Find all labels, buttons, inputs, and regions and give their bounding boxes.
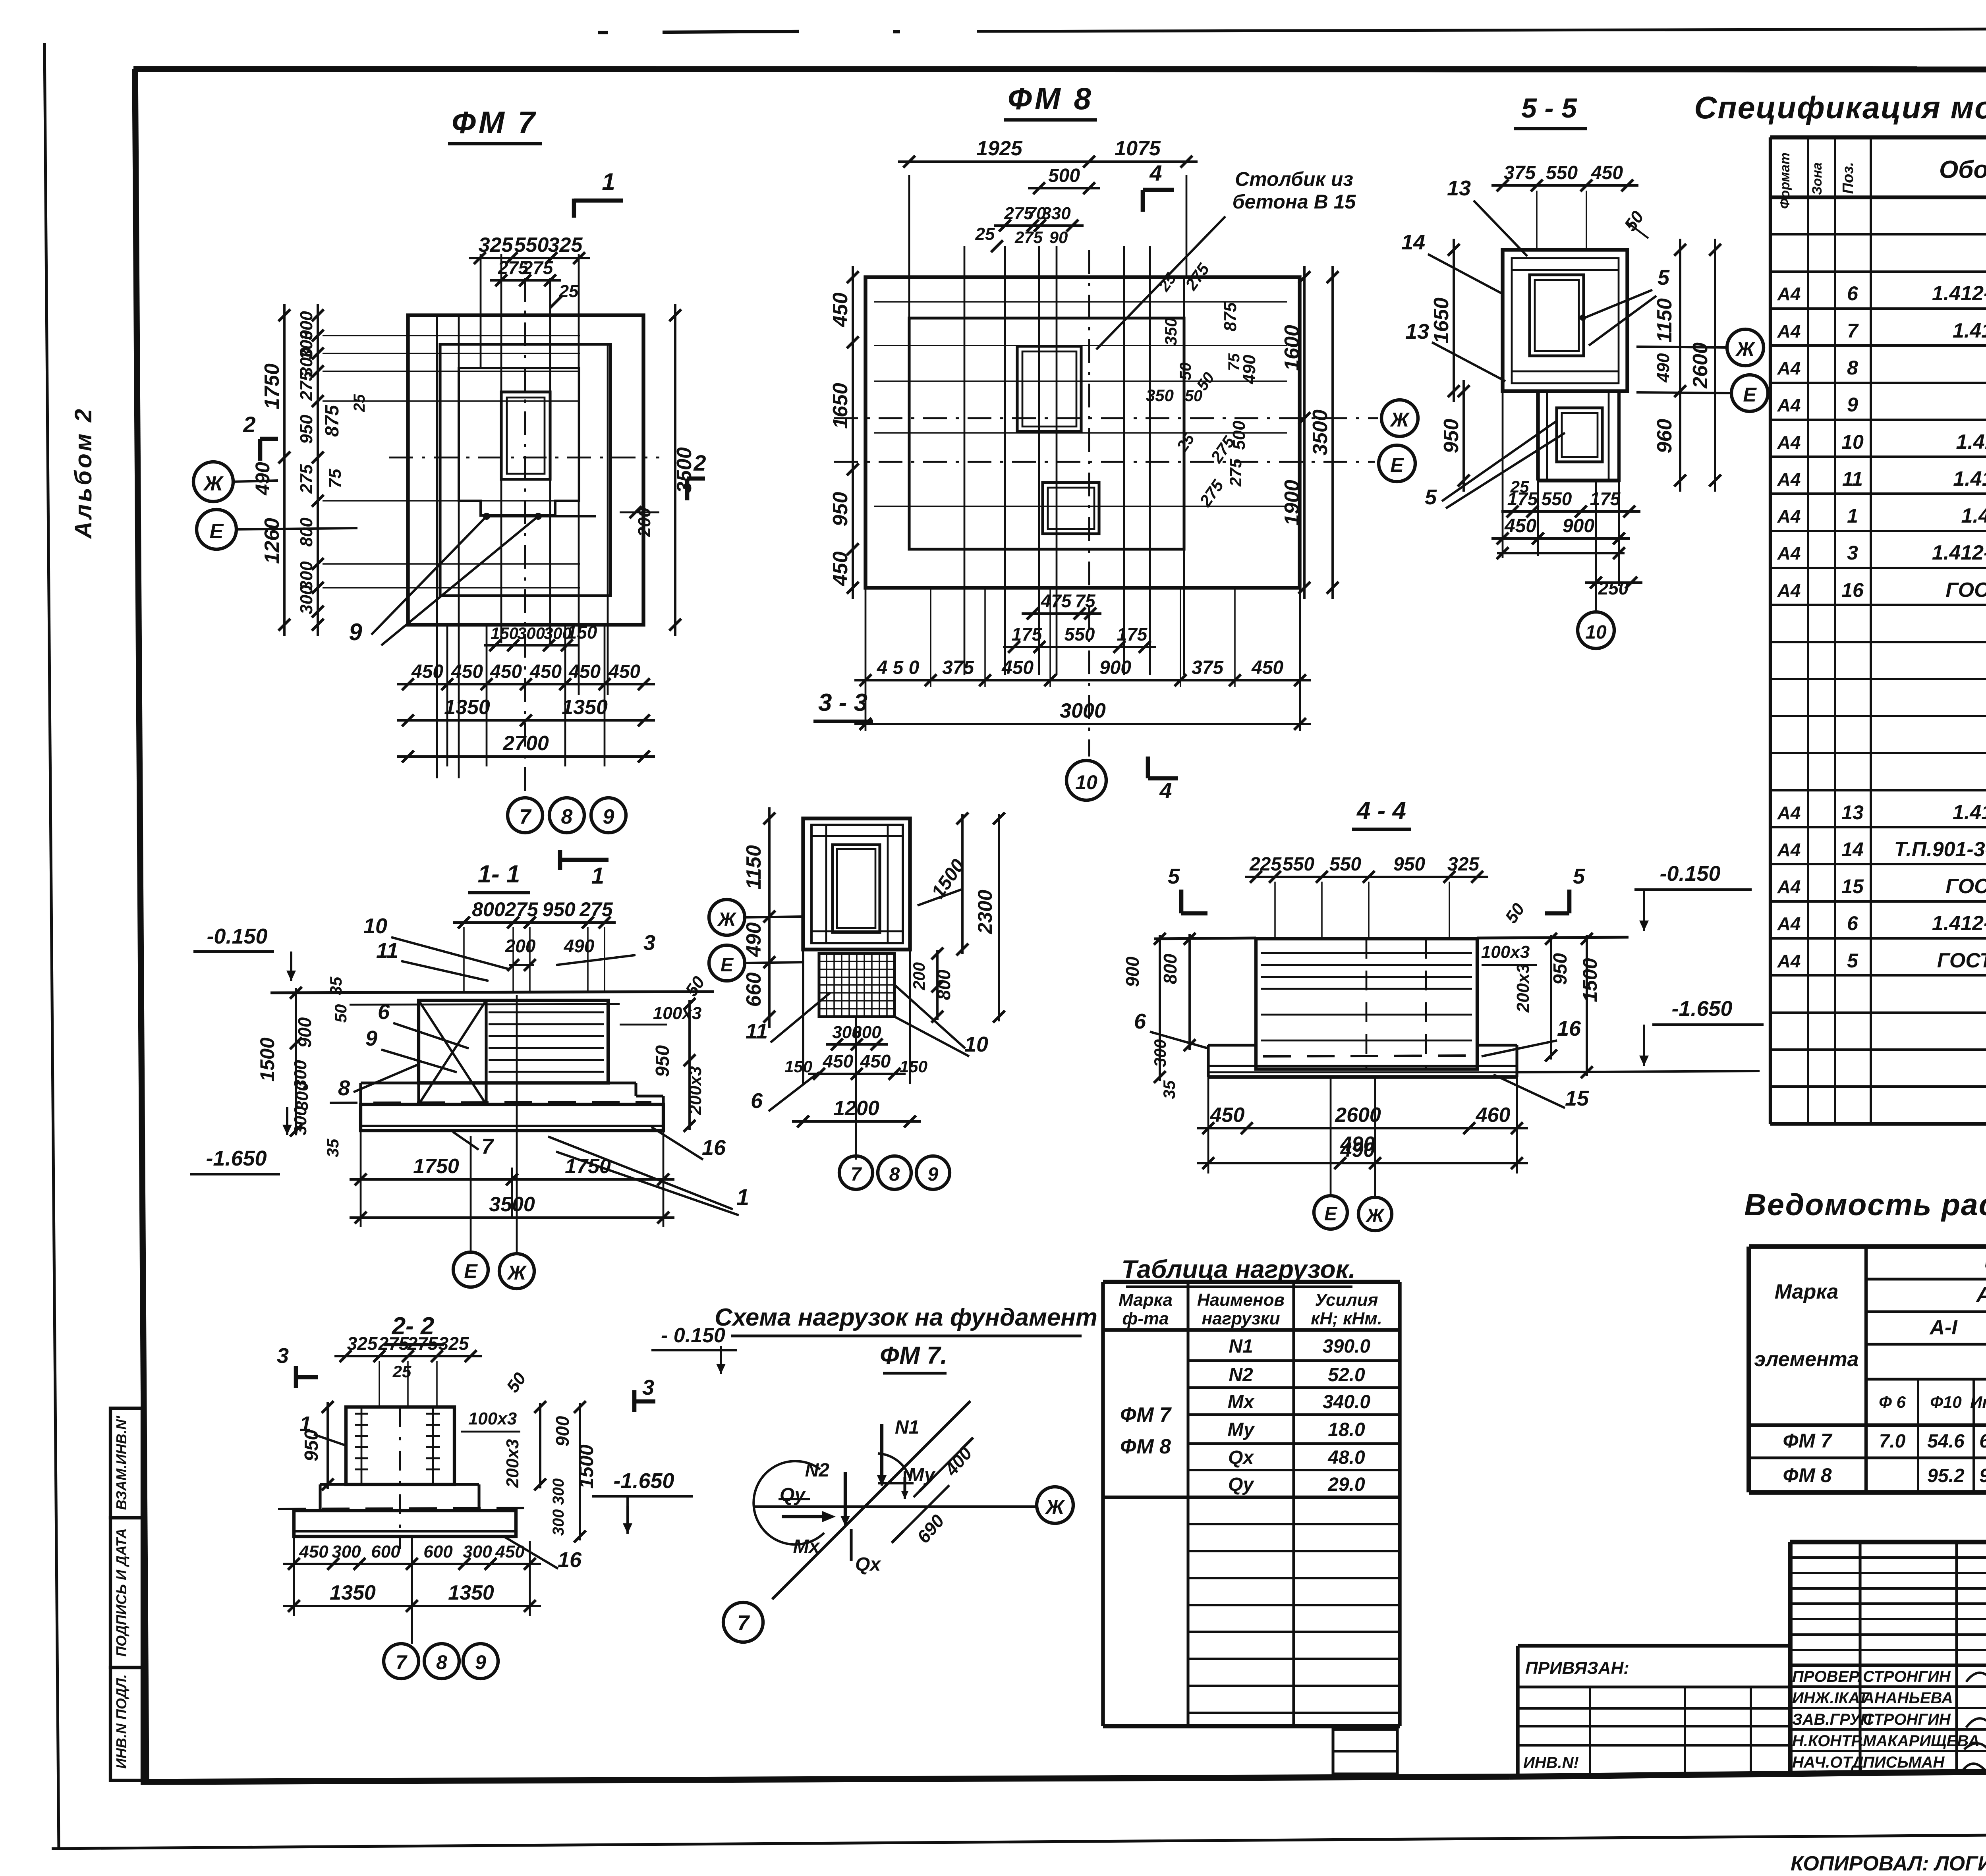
- svg-text:2600: 2600: [1689, 342, 1712, 389]
- svg-text:Т.П.901-3-268.89 КЖ.И С1: Т.П.901-3-268.89 КЖ.И С1: [1894, 838, 1986, 861]
- svg-text:4: 4: [1149, 160, 1162, 185]
- svg-text:10: 10: [964, 1033, 988, 1056]
- FM8 extension verticals: [964, 246, 966, 675]
- svg-text:А4: А4: [1777, 840, 1801, 860]
- sheet edge bottom: [52, 1831, 1986, 1849]
- svg-text:ФМ 7: ФМ 7: [1783, 1430, 1833, 1452]
- svg-text:325: 325: [479, 234, 514, 257]
- svg-text:13: 13: [1447, 176, 1471, 200]
- svg-text:А4: А4: [1777, 358, 1801, 378]
- svg-text:3: 3: [1847, 542, 1858, 564]
- svg-text:3: 3: [277, 1344, 289, 1368]
- svg-text:100х3: 100х3: [1481, 942, 1530, 962]
- svg-text:N1: N1: [895, 1417, 919, 1438]
- svg-text:16: 16: [558, 1548, 582, 1572]
- svg-text:460: 460: [1476, 1104, 1511, 1127]
- svg-text:Схема нагрузок на фундамент: Схема нагрузок на фундамент: [715, 1304, 1097, 1331]
- svg-text:Е: Е: [1390, 454, 1404, 476]
- svg-text:29.0: 29.0: [1327, 1474, 1365, 1495]
- svg-text:А4: А4: [1777, 876, 1801, 897]
- S33 axis circles 789: [839, 1156, 873, 1189]
- svg-text:Зона: Зона: [1810, 162, 1825, 195]
- svg-text:1600: 1600: [1281, 325, 1304, 371]
- svg-text:1650: 1650: [829, 383, 852, 429]
- svg-text:950: 950: [542, 898, 576, 921]
- svg-text:475: 475: [1041, 591, 1072, 611]
- svg-text:N2: N2: [1229, 1365, 1253, 1386]
- svg-text:1.412.1- 4.050: 1.412.1- 4.050: [1953, 467, 1986, 490]
- svg-text:Ж: Ж: [203, 472, 224, 495]
- svg-text:490: 490: [251, 462, 274, 496]
- svg-text:150: 150: [784, 1057, 812, 1076]
- svg-text:550: 550: [1542, 488, 1572, 509]
- load scheme N2 arrow: [844, 1472, 847, 1521]
- svg-text:ПРОВЕР.: ПРОВЕР.: [1792, 1668, 1862, 1685]
- left stamp box inv: [110, 1668, 142, 1780]
- svg-text:Столбик из: Столбик из: [1235, 168, 1353, 190]
- svg-text:800: 800: [1160, 953, 1180, 984]
- svg-text:450: 450: [1251, 657, 1283, 678]
- sheet edge left: [44, 43, 59, 1849]
- S33 lower outline: [802, 950, 804, 1084]
- svg-text:Таблица нагрузок.: Таблица нагрузок.: [1121, 1255, 1356, 1283]
- svg-text:450: 450: [608, 661, 640, 682]
- svg-text:9: 9: [1847, 394, 1858, 416]
- svg-text:СТРОНГИН: СТРОНГИН: [1863, 1711, 1951, 1728]
- svg-text:200х3: 200х3: [1513, 964, 1533, 1013]
- S11 ground line: [270, 992, 714, 993]
- load scheme 400 dim: [914, 1440, 971, 1497]
- svg-text:13: 13: [1405, 320, 1429, 344]
- svg-text:1900: 1900: [1281, 480, 1304, 526]
- drawing frame: [133, 69, 1986, 69]
- FM8 outline: [865, 277, 1300, 588]
- FM8 bottom extension verticals: [865, 588, 867, 731]
- svg-text:950: 950: [829, 492, 852, 527]
- FM8 axis circle 10: [1066, 760, 1106, 800]
- S33 axis circles: [709, 899, 745, 935]
- svg-text:1.412-1/77-8.3-100: 1.412-1/77-8.3-100: [1932, 912, 1986, 935]
- FM8 upper pocket: [1017, 346, 1081, 431]
- svg-text:-1.650: -1.650: [206, 1146, 267, 1170]
- svg-text:Му: Му: [908, 1465, 936, 1486]
- svg-text:ф-та: ф-та: [1122, 1309, 1169, 1328]
- svg-text:ПИСЬМАН: ПИСЬМАН: [1863, 1754, 1945, 1771]
- svg-text:1075: 1075: [1115, 137, 1161, 160]
- S55 lower pocket: [1557, 408, 1602, 462]
- S55 top dims: [1491, 184, 1638, 187]
- svg-text:Qу: Qу: [1228, 1474, 1254, 1495]
- load scheme Qy arrow: [782, 1515, 830, 1518]
- svg-text:ИНВ.N ПОДЛ.: ИНВ.N ПОДЛ.: [113, 1674, 129, 1769]
- FM7 column pocket: [501, 392, 550, 479]
- svg-text:150: 150: [567, 622, 597, 643]
- svg-text:300: 300: [852, 1023, 881, 1042]
- FM8 lower pocket: [1043, 483, 1099, 534]
- svg-text:325: 325: [439, 1333, 469, 1354]
- S22 bottom dims: [283, 1563, 541, 1565]
- svg-text:3: 3: [642, 1376, 654, 1399]
- load scheme circle 7: [723, 1602, 763, 1642]
- svg-text:1150: 1150: [742, 845, 765, 890]
- svg-text:450: 450: [829, 552, 852, 587]
- S22 body: [346, 1407, 454, 1484]
- svg-text:175: 175: [1117, 624, 1148, 645]
- S22 section flags 3: [294, 1366, 298, 1388]
- svg-text:550: 550: [514, 234, 549, 257]
- load table grid: [1103, 1280, 1400, 1284]
- svg-text:300: 300: [517, 624, 545, 643]
- svg-text:325: 325: [347, 1333, 378, 1354]
- svg-text:95.2: 95.2: [1979, 1465, 1986, 1486]
- svg-text:5 - 5: 5 - 5: [1521, 93, 1577, 124]
- FM7 axis circle Zh: [193, 462, 233, 502]
- svg-text:450: 450: [1591, 162, 1623, 183]
- svg-text:ФМ 7: ФМ 7: [452, 105, 537, 140]
- FM7 horizontal extension lines: [323, 335, 580, 336]
- svg-text:900: 900: [294, 1017, 315, 1048]
- svg-text:Ж: Ж: [1735, 338, 1756, 360]
- svg-text:10: 10: [363, 914, 387, 938]
- svg-text:100х3: 100х3: [468, 1409, 517, 1428]
- title block signatures: [1966, 1672, 1986, 1682]
- svg-text:4 5 0: 4 5 0: [877, 657, 920, 678]
- svg-text:8: 8: [889, 1164, 900, 1185]
- svg-text:Наименов: Наименов: [1197, 1290, 1285, 1310]
- svg-text:1: 1: [602, 168, 615, 195]
- svg-text:кН; кНм.: кН; кНм.: [1311, 1309, 1382, 1328]
- svg-text:175: 175: [1012, 624, 1043, 645]
- svg-text:2: 2: [243, 412, 255, 437]
- svg-text:Е: Е: [1324, 1204, 1338, 1225]
- svg-text:340.0: 340.0: [1323, 1392, 1370, 1413]
- svg-text:275: 275: [504, 898, 539, 921]
- svg-text:375: 375: [1504, 162, 1536, 183]
- svg-text:8: 8: [338, 1076, 350, 1100]
- FM8 axis circle E: [1379, 445, 1415, 482]
- svg-text:ВЗАМ.ИНВ.N': ВЗАМ.ИНВ.N': [113, 1415, 129, 1510]
- FM8 section flag 4 top: [1141, 190, 1145, 212]
- svg-text:50: 50: [331, 1004, 350, 1023]
- FM7 axis circles 789: [508, 798, 543, 833]
- S33 left dims: [768, 807, 771, 1028]
- svg-text:1500: 1500: [1579, 958, 1601, 1002]
- load scheme diagonal axis: [772, 1401, 970, 1599]
- FM7 bottom small dims: [484, 644, 578, 647]
- S33 hatch grid: [819, 953, 894, 1017]
- svg-text:550: 550: [1283, 854, 1314, 875]
- svg-text:10: 10: [1841, 431, 1864, 453]
- svg-text:1- 1: 1- 1: [478, 861, 520, 888]
- S44 axis circles: [1314, 1196, 1347, 1229]
- title block left grid: [1858, 1542, 1861, 1773]
- svg-text:175: 175: [1590, 488, 1621, 509]
- svg-text:275: 275: [378, 1333, 410, 1354]
- FM7 inner rect: [440, 344, 610, 596]
- svg-text:Qх: Qх: [855, 1554, 881, 1575]
- svg-text:2600: 2600: [1335, 1104, 1381, 1127]
- svg-text:950: 950: [1440, 419, 1463, 454]
- svg-text:2700: 2700: [502, 732, 549, 755]
- load scheme My arrow: [878, 1482, 914, 1484]
- svg-text:ГОСТ 23279-85: ГОСТ 23279-85: [1945, 579, 1986, 602]
- svg-text:Марка: Марка: [1775, 1280, 1839, 1303]
- svg-text:ИНЖ.IКАТ: ИНЖ.IКАТ: [1792, 1689, 1869, 1707]
- svg-text:3500: 3500: [1309, 409, 1332, 455]
- svg-text:4 - 4: 4 - 4: [1356, 797, 1406, 824]
- svg-text:КОПИРОВАЛ: ЛОГИНОВА: КОПИРОВАЛ: ЛОГИНОВА: [1791, 1852, 1986, 1875]
- S11 dashed level: [330, 1102, 651, 1103]
- S11 x-brace: [419, 1000, 486, 1104]
- svg-text:450: 450: [823, 1051, 854, 1071]
- svg-text:550: 550: [1064, 624, 1095, 645]
- svg-text:490: 490: [564, 936, 595, 956]
- svg-text:А4: А4: [1777, 506, 1801, 527]
- svg-text:13: 13: [1841, 801, 1864, 824]
- svg-text:1260: 1260: [261, 518, 284, 564]
- svg-text:250: 250: [1598, 578, 1629, 598]
- svg-text:450: 450: [299, 1542, 328, 1561]
- svg-text:18.0: 18.0: [1328, 1419, 1365, 1440]
- svg-text:МАКАРИЩЕВА: МАКАРИЩЕВА: [1863, 1732, 1980, 1750]
- svg-text:5: 5: [1573, 865, 1585, 888]
- svg-text:7: 7: [481, 1135, 495, 1158]
- sheet top edge line: [977, 28, 1986, 31]
- svg-text:375: 375: [1192, 657, 1224, 678]
- svg-text:Qх: Qх: [1228, 1447, 1254, 1468]
- svg-text:11: 11: [746, 1019, 768, 1043]
- S11 footing: [361, 1081, 419, 1084]
- svg-text:54.6: 54.6: [1927, 1431, 1965, 1452]
- svg-text:7: 7: [520, 805, 532, 828]
- svg-text:1.410 - 3.1 -03: 1.410 - 3.1 -03: [1953, 801, 1986, 824]
- svg-text:7.0: 7.0: [1879, 1431, 1906, 1452]
- svg-text:300: 300: [463, 1542, 492, 1561]
- svg-text:6: 6: [751, 1089, 763, 1113]
- svg-text:950: 950: [1393, 854, 1425, 875]
- svg-text:1: 1: [736, 1185, 749, 1210]
- svg-text:3 - 3: 3 - 3: [818, 689, 867, 716]
- S22 extension verticals: [379, 1361, 380, 1407]
- svg-text:8: 8: [561, 805, 573, 828]
- svg-text:25: 25: [975, 224, 995, 244]
- svg-text:600: 600: [423, 1542, 453, 1561]
- spec table grid: [1769, 137, 1772, 1124]
- svg-text:95.2: 95.2: [1927, 1465, 1965, 1486]
- svg-text:АНАНЬЕВА: АНАНЬЕВА: [1862, 1689, 1953, 1707]
- svg-text:900: 900: [552, 1416, 573, 1446]
- S33 bottom dims: [826, 1043, 888, 1046]
- FM7 bottom dim 2700: [397, 755, 655, 758]
- svg-text:1500: 1500: [575, 1444, 597, 1488]
- svg-text:N1: N1: [1229, 1336, 1253, 1357]
- FM8 extension horizontals: [874, 301, 1287, 303]
- svg-text:А4: А4: [1777, 543, 1801, 564]
- S55 dim 250: [1585, 581, 1642, 584]
- S11 left dims: [295, 988, 297, 1135]
- S55 circle 10: [1578, 612, 1614, 648]
- FM8 right dims: [1303, 266, 1306, 599]
- svg-text:450: 450: [490, 661, 522, 682]
- svg-text:450: 450: [568, 661, 601, 682]
- svg-text:7: 7: [396, 1651, 408, 1673]
- svg-text:5: 5: [1658, 266, 1670, 290]
- S22 slab: [294, 1511, 516, 1536]
- svg-text:11: 11: [376, 939, 398, 963]
- FM7 section flag 2 right: [685, 479, 690, 500]
- svg-text:350: 350: [1161, 318, 1180, 345]
- svg-text:Ведомость расхода стали на эле: Ведомость расхода стали на элемент, кг.: [1744, 1188, 1986, 1222]
- svg-text:25: 25: [351, 394, 368, 412]
- load scheme moment arcs: [753, 1461, 824, 1544]
- svg-text:450: 450: [411, 661, 443, 682]
- svg-text:275: 275: [579, 898, 613, 921]
- S22 axis circles 789: [384, 1644, 419, 1679]
- svg-text:35: 35: [326, 977, 345, 995]
- svg-text:6: 6: [1134, 1009, 1146, 1033]
- privyazan table: [1518, 1644, 1790, 1647]
- S22 top dims: [334, 1355, 482, 1357]
- svg-text:1.410-3.1-02: 1.410-3.1-02: [1961, 504, 1986, 527]
- svg-text:50: 50: [1185, 387, 1203, 405]
- svg-text:ФМ 7.: ФМ 7.: [880, 1342, 947, 1369]
- svg-text:450: 450: [451, 661, 483, 682]
- svg-text:ФМ 8: ФМ 8: [1008, 81, 1093, 116]
- svg-text:1750: 1750: [565, 1155, 611, 1178]
- svg-text:150: 150: [900, 1057, 927, 1076]
- S44 footing: [1208, 1044, 1256, 1046]
- S11 slab: [361, 1104, 663, 1131]
- svg-text:175: 175: [1507, 488, 1538, 509]
- svg-text:61.6: 61.6: [1979, 1431, 1986, 1452]
- S55 upper outline: [1503, 250, 1627, 391]
- svg-text:8: 8: [436, 1651, 447, 1673]
- svg-text:15: 15: [1565, 1087, 1589, 1110]
- svg-text:ИНВ.N!: ИНВ.N!: [1523, 1754, 1579, 1772]
- svg-text:А4: А4: [1777, 580, 1801, 601]
- svg-text:1350: 1350: [448, 1581, 494, 1604]
- S55 right dims: [1679, 239, 1681, 492]
- svg-text:Ж: Ж: [1365, 1205, 1385, 1226]
- svg-text:А4: А4: [1777, 284, 1801, 304]
- svg-text:Поз.: Поз.: [1840, 162, 1857, 194]
- FM8 section flag 4 bottom: [1146, 757, 1150, 778]
- svg-text:875: 875: [322, 405, 343, 437]
- S55 lower outline: [1538, 391, 1619, 481]
- FM8 axis dash vertical: [1088, 250, 1090, 757]
- svg-text:200: 200: [910, 962, 928, 990]
- S11 bottom dims: [350, 1178, 674, 1181]
- S11 top dim row: [453, 921, 616, 924]
- svg-text:5: 5: [1425, 485, 1437, 509]
- svg-text:550: 550: [1329, 854, 1361, 875]
- svg-text:3500: 3500: [673, 447, 696, 493]
- FM7 extension verticals: [480, 254, 482, 368]
- svg-text:450: 450: [1210, 1104, 1245, 1127]
- FM7 bottom dims 1350: [397, 719, 655, 722]
- svg-text:52.0: 52.0: [1328, 1365, 1365, 1386]
- svg-text:1925: 1925: [976, 137, 1023, 160]
- svg-text:490: 490: [742, 923, 765, 957]
- svg-text:Му: Му: [1227, 1419, 1255, 1440]
- FM8 top dims: [898, 160, 1198, 163]
- svg-text:300: 300: [291, 1106, 310, 1135]
- svg-text:Е: Е: [721, 955, 734, 976]
- svg-text:Арматура класса: Арматура класса: [1976, 1283, 1986, 1307]
- svg-text:660: 660: [742, 973, 765, 1007]
- FM8 bottom small dims: [1022, 612, 1101, 615]
- FM8 axis circle Zh: [1381, 400, 1418, 436]
- svg-text:275: 275: [522, 257, 554, 278]
- svg-text:450: 450: [1001, 657, 1034, 678]
- svg-text:Е: Е: [1743, 384, 1757, 406]
- svg-text:48.0: 48.0: [1327, 1447, 1365, 1468]
- svg-text:1350: 1350: [562, 696, 608, 719]
- S33 inner bars: [811, 835, 903, 837]
- svg-text:1350: 1350: [444, 696, 490, 719]
- svg-text:16: 16: [702, 1136, 726, 1160]
- svg-text:500: 500: [1048, 165, 1080, 186]
- svg-text:А-I: А-I: [1929, 1316, 1958, 1339]
- S11 body: [419, 1000, 608, 1083]
- svg-text:7: 7: [1847, 320, 1859, 342]
- svg-text:8: 8: [1847, 357, 1858, 379]
- svg-text:ПРИВЯЗАН:: ПРИВЯЗАН:: [1525, 1658, 1629, 1678]
- FM7 right dim 3500: [674, 304, 676, 636]
- svg-text:1: 1: [299, 1412, 311, 1436]
- svg-text:950: 950: [1550, 953, 1571, 985]
- svg-text:11: 11: [1842, 468, 1863, 490]
- svg-text:375: 375: [942, 657, 974, 678]
- svg-text:А4: А4: [1777, 432, 1801, 453]
- svg-text:А4: А4: [1777, 321, 1801, 342]
- svg-text:900: 900: [1099, 657, 1131, 678]
- svg-text:450: 450: [529, 661, 562, 682]
- svg-text:Ж: Ж: [1389, 409, 1410, 431]
- svg-text:35: 35: [323, 1139, 342, 1157]
- load scheme N1 arrow: [880, 1424, 883, 1480]
- svg-text:Е: Е: [210, 520, 224, 543]
- svg-text:10: 10: [1075, 771, 1097, 793]
- svg-text:Е: Е: [464, 1260, 478, 1282]
- svg-text:нагрузки: нагрузки: [1202, 1309, 1280, 1328]
- FM7 left small dims: [317, 304, 319, 636]
- S11 axis circles E Zh: [453, 1252, 488, 1287]
- svg-text:450: 450: [829, 293, 852, 328]
- inv small box: [1333, 1729, 1397, 1774]
- svg-text:200х3: 200х3: [503, 1439, 522, 1488]
- svg-text:900: 900: [1563, 515, 1594, 537]
- svg-text:Ф10: Ф10: [1930, 1393, 1962, 1411]
- svg-text:7: 7: [737, 1611, 750, 1635]
- svg-text:350: 350: [1146, 386, 1174, 405]
- svg-text:75: 75: [325, 469, 345, 488]
- svg-text:16: 16: [1557, 1017, 1581, 1040]
- svg-text:800: 800: [297, 517, 316, 547]
- svg-text:1.412- 1-4.080: 1.412- 1-4.080: [1953, 319, 1986, 342]
- svg-text:ПОДПИСЬ И ДАТА: ПОДПИСЬ И ДАТА: [113, 1528, 129, 1657]
- svg-text:300 300: 300 300: [550, 1478, 567, 1536]
- svg-text:35: 35: [1160, 1080, 1178, 1099]
- svg-text:Ф 6: Ф 6: [1879, 1393, 1906, 1411]
- FM7 axis dash h: [389, 457, 659, 459]
- load scheme Qx arrow: [850, 1529, 852, 1561]
- svg-text:875: 875: [1221, 302, 1240, 332]
- S33 upper rect: [803, 818, 910, 950]
- svg-text:90: 90: [1049, 228, 1068, 247]
- svg-text:200: 200: [505, 936, 536, 956]
- left stamp box podpis: [110, 1518, 142, 1668]
